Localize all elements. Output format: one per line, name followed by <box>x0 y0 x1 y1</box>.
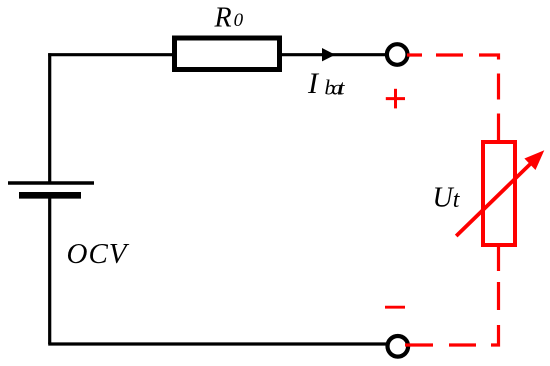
svg-text:R0: R0 <box>214 3 244 34</box>
resistor R0 <box>175 38 280 70</box>
svg-text:bat: bat <box>325 76 346 100</box>
label Ibat <box>307 67 346 100</box>
battery OCV bottom plate (short thick) <box>19 192 81 199</box>
variable resistor arrowhead <box>524 150 544 170</box>
svg-text:Ut: Ut <box>433 183 461 214</box>
wire: left vertical upper (top wire down to battery top plate) <box>48 53 51 183</box>
svg-text:I: I <box>307 67 320 100</box>
variable load resistor Ut (red rectangle) <box>483 142 515 245</box>
node: positive terminal (open circle) <box>387 44 408 65</box>
battery OCV top plate (long thin) <box>8 181 94 184</box>
current direction arrowhead Ibat <box>322 48 335 61</box>
variable resistor arrow shaft <box>456 163 531 236</box>
wire: R0 right side to positive terminal <box>280 53 389 56</box>
wire: bottom horizontal to negative terminal <box>48 342 386 345</box>
label + (positive polarity mark) <box>386 89 405 109</box>
wire: red dashed from negative terminal to load bottom <box>405 247 499 345</box>
svg-text:OCV: OCV <box>67 238 130 270</box>
wire: top-left horizontal from battery branch to R0 <box>48 53 175 56</box>
label - (negative polarity mark) <box>385 306 405 309</box>
node: negative terminal (open circle) <box>388 336 409 357</box>
wire: left vertical lower (battery bottom plate down to bottom wire) <box>48 195 51 344</box>
wire: red dashed from positive terminal to load top <box>407 55 499 141</box>
